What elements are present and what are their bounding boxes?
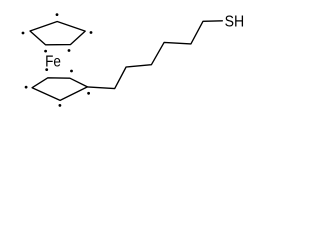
ring 2 radical dot (bottom) [59, 104, 62, 107]
cyclopentadienyl ring 2 (bottom Cp ring) [32, 78, 87, 101]
ring 1 radical dot (apex) [56, 13, 59, 16]
ring 1 radical dot (left) [22, 32, 25, 35]
ring 2 radical dot (top-right) [70, 70, 73, 73]
ring 2 radical dot (left) [25, 86, 28, 89]
hexanethiol chain bonds [87, 21, 222, 89]
ring 1 radical dot (bottom-left) [44, 50, 47, 53]
ring 1 radical dot (bottom-right) [68, 49, 71, 52]
svg-text:SH: SH [225, 14, 245, 31]
ring 1 radical dot (right) [90, 31, 93, 34]
svg-text:Fe: Fe [45, 54, 61, 71]
ring 2 radical dot (top-left) [45, 68, 48, 71]
cyclopentadienyl ring 1 (top Cp ring) [30, 22, 85, 45]
ring 2 radical dot (right) [87, 92, 90, 95]
